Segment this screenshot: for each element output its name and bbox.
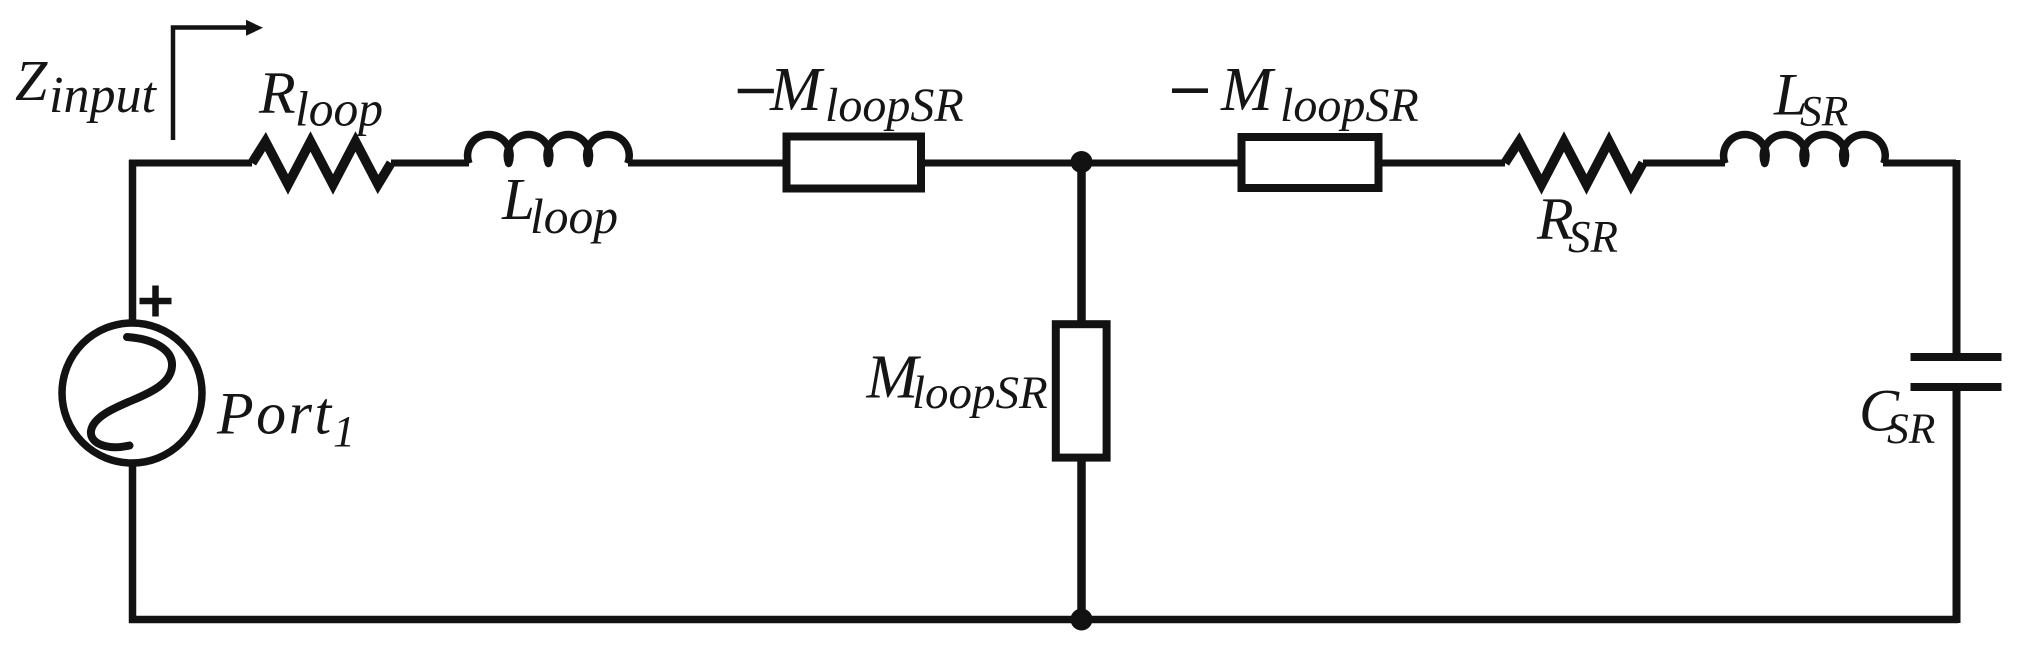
svg-text:R: R — [258, 60, 296, 126]
wire middle vertical from node to Mbox — [1077, 163, 1086, 321]
svg-text:SR: SR — [1887, 405, 1935, 453]
source Port1 circle — [62, 323, 202, 463]
plus polarity sign — [140, 286, 172, 317]
label -M_loopSR (left) — [738, 89, 774, 94]
svg-text:M: M — [769, 56, 825, 124]
svg-text:loopSR: loopSR — [1280, 79, 1419, 132]
wire left vertical from source to bottom — [129, 463, 137, 623]
mutual inductance box -M_loopSR (right) — [1242, 137, 1379, 188]
wire right vertical from capacitor to bottom — [1953, 391, 1961, 623]
svg-text:input: input — [49, 67, 157, 124]
label -M_loopSR (right) — [1172, 88, 1208, 93]
wire top-left horizontal segment — [129, 160, 252, 167]
svg-text:Port: Port — [216, 380, 334, 446]
capacitor C_SR top plate — [1911, 353, 2002, 361]
inductor L_loop — [468, 134, 630, 163]
wire between R_loop and L_loop — [391, 160, 469, 167]
svg-text:SR: SR — [1568, 212, 1618, 262]
wire right vertical from corner to capacitor — [1953, 160, 1961, 353]
resistor R_loop — [252, 142, 391, 185]
node A junction dot (top) — [1071, 151, 1093, 173]
mutual inductance box -M_loopSR (left) — [787, 137, 922, 189]
svg-text:SR: SR — [1800, 88, 1848, 136]
wire bottom horizontal — [129, 616, 1958, 624]
svg-text:loop: loop — [295, 82, 383, 137]
resistor R_SR — [1505, 142, 1643, 185]
wire left vertical from top wire to source — [129, 160, 137, 323]
svg-text:1: 1 — [333, 407, 355, 456]
wire between R_SR and L_SR — [1643, 160, 1725, 167]
wire between box1 and box2 through node — [925, 160, 1238, 167]
svg-text:loopSR: loopSR — [912, 367, 1048, 419]
svg-text:M: M — [1220, 56, 1276, 124]
svg-text:loopSR: loopSR — [825, 79, 964, 132]
wire middle vertical from Mbox to bottom wire — [1077, 461, 1086, 620]
Z_input arrow — [173, 28, 248, 141]
svg-text:loop: loop — [530, 189, 618, 244]
node B junction dot (bottom) — [1071, 609, 1093, 631]
inductor L_SR — [1724, 134, 1886, 163]
wire from L_SR to top-right corner — [1883, 160, 1956, 167]
source sine squiggle — [91, 337, 172, 447]
mutual inductance box M_loopSR (vertical shunt) — [1056, 324, 1107, 457]
svg-text:Z: Z — [15, 48, 48, 113]
wire between box2 and R_SR — [1382, 160, 1505, 167]
capacitor C_SR bottom plate — [1911, 383, 2002, 391]
wire between L_loop and box1 — [628, 160, 783, 167]
